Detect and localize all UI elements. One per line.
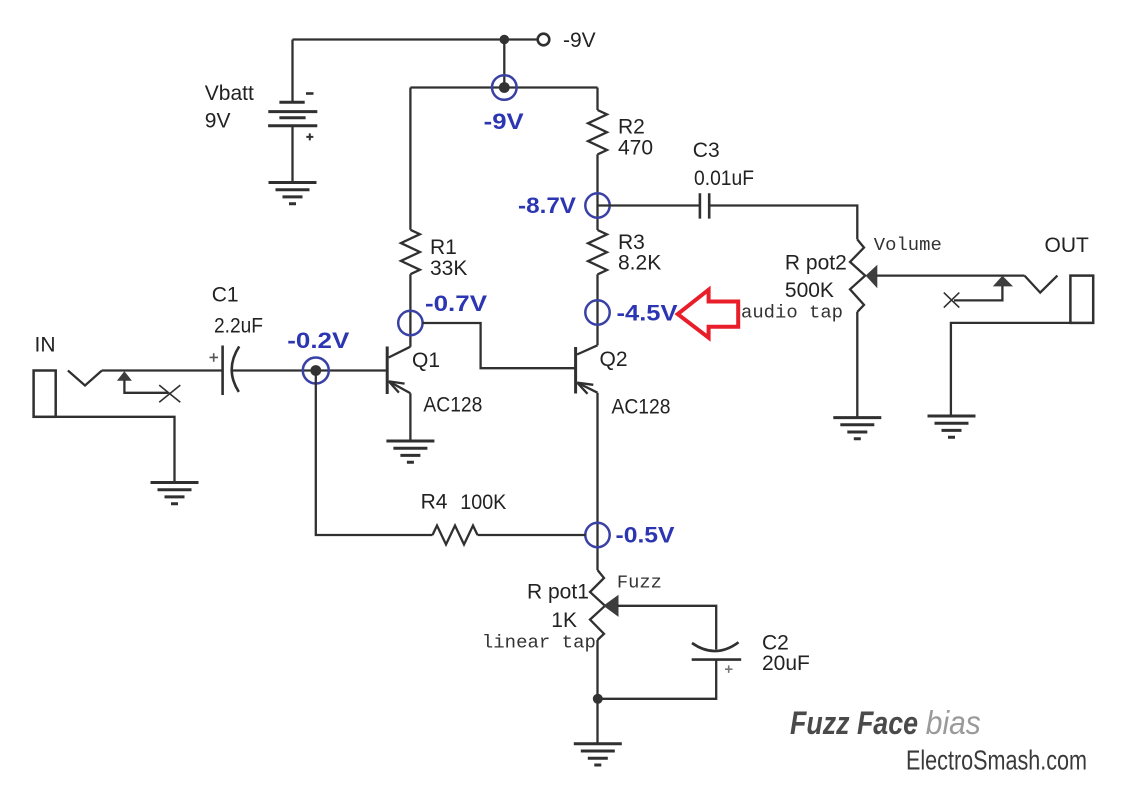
svg-text:Volume: Volume: [874, 236, 942, 256]
wire rail to R1 and R2: [410, 86, 597, 88]
IN jack switch arrow: [117, 371, 132, 381]
wire top supply rail: [293, 38, 538, 40]
wire -9V node drop: [503, 40, 505, 88]
svg-text:470: 470: [618, 137, 653, 160]
svg-text:R4: R4: [421, 491, 448, 514]
ground OUT: [928, 416, 976, 437]
svg-text:-8.7V: -8.7V: [518, 193, 576, 218]
ground pot1: [574, 744, 622, 765]
junction top rail: [500, 35, 510, 45]
pot1 wiper arrow: [603, 595, 618, 617]
jack IN sleeve rectangle: [34, 371, 56, 417]
resistor R1: [401, 230, 420, 274]
transistor Q1: [387, 347, 410, 395]
pot2 wiper arrow: [866, 265, 878, 289]
svg-text:linear tap: linear tap: [482, 634, 596, 654]
wire R2 top lead: [596, 88, 598, 111]
svg-text:0.01uF: 0.01uF: [694, 167, 754, 190]
node -4.5V: [585, 300, 609, 324]
svg-text:AC128: AC128: [423, 394, 482, 417]
wire battery top lead: [291, 40, 293, 103]
wire OUT jack sleeve to ground: [951, 323, 1071, 416]
potentiometer R pot1: [590, 570, 605, 640]
svg-text:Fuzz Face: Fuzz Face: [790, 705, 918, 741]
ground IN: [151, 483, 199, 504]
svg-text:100K: 100K: [460, 491, 506, 514]
terminal -9V open circle: [538, 34, 550, 46]
node -8.7V: [585, 193, 609, 217]
resistor R4: [433, 526, 478, 545]
svg-text:-0.7V: -0.7V: [425, 291, 487, 316]
svg-text:ElectroSmash.com: ElectroSmash.com: [906, 745, 1087, 776]
svg-text:Q2: Q2: [600, 348, 628, 371]
resistor R3: [588, 230, 607, 274]
node -0.7V: [398, 311, 422, 335]
battery Vbatt: [268, 102, 317, 125]
wire C1 to -0.2V node and Q1 base: [232, 369, 387, 371]
wire pot2 wiper to OUT jack: [877, 274, 1025, 276]
svg-text:8.2K: 8.2K: [618, 252, 661, 275]
svg-text:R1: R1: [430, 236, 457, 259]
node -9V: [492, 75, 517, 100]
IN switch cross: [159, 385, 180, 402]
wire R1 bottom to Q1 collector: [409, 274, 411, 347]
wire Q1 emitter to ground: [409, 393, 411, 441]
svg-text:-0.2V: -0.2V: [287, 328, 349, 353]
wire IN jack sleeve to ground: [56, 417, 175, 483]
wire C2 bottom to pot1 bottom: [598, 660, 717, 699]
OUT jack tip chevron: [1025, 276, 1058, 293]
svg-text:AC128: AC128: [612, 396, 671, 419]
potentiometer R pot2: [850, 239, 865, 312]
svg-text:R pot2: R pot2: [785, 252, 847, 275]
OUT jack sleeve rectangle: [1070, 276, 1093, 323]
wire R1 top lead: [409, 88, 411, 230]
wire pot1 wiper to C2 top: [618, 606, 717, 650]
svg-text:Vbatt: Vbatt: [205, 82, 254, 105]
capacitor C3: [700, 193, 709, 218]
svg-text:20uF: 20uF: [762, 652, 810, 675]
battery plus mark: [306, 133, 313, 140]
OUT jack switch arrow: [993, 276, 1013, 287]
svg-text:2.2uF: 2.2uF: [214, 315, 263, 338]
svg-text:Fuzz: Fuzz: [617, 574, 662, 594]
svg-text:IN: IN: [35, 334, 56, 357]
svg-text:-9V: -9V: [563, 29, 596, 52]
transistor Q2: [576, 345, 598, 394]
capacitor C2: [692, 642, 742, 673]
svg-text:-4.5V: -4.5V: [617, 301, 678, 326]
svg-text:C3: C3: [693, 139, 720, 162]
node -0.5V: [585, 523, 609, 547]
svg-text:bias: bias: [926, 704, 981, 741]
svg-text:OUT: OUT: [1045, 234, 1090, 257]
svg-text:9V: 9V: [205, 110, 231, 133]
svg-text:1K: 1K: [551, 609, 577, 632]
wire -0.2V node down to R4: [316, 371, 433, 536]
resistor R2: [588, 110, 607, 154]
ground pot2: [833, 418, 881, 439]
OUT switch cross: [944, 293, 960, 308]
svg-text:-9V: -9V: [484, 109, 524, 134]
svg-text:500K: 500K: [785, 279, 834, 302]
wire R3 bottom to Q2 collector: [596, 274, 598, 345]
wire C3 to pot2 top: [709, 206, 857, 240]
wire pot1 bottom to ground: [596, 640, 598, 744]
ground battery: [269, 183, 317, 204]
wire -0.7V node to Q2 base: [422, 323, 575, 368]
wire Q2 emitter down to pot1: [596, 393, 598, 570]
junction pot1 bottom: [593, 694, 603, 704]
battery minus mark: [306, 92, 314, 95]
wire IN tip to C1: [102, 369, 223, 371]
svg-text:R2: R2: [618, 116, 645, 139]
svg-text:R pot1: R pot1: [527, 581, 589, 604]
arrow bias pointer: [678, 290, 739, 338]
node -0.2V: [303, 358, 329, 384]
svg-text:-0.5V: -0.5V: [616, 523, 675, 548]
wire R2 bottom to R3 top: [596, 154, 598, 230]
wire IN switch stem: [124, 380, 168, 392]
svg-text:C1: C1: [212, 284, 239, 307]
IN jack tip chevron: [68, 371, 102, 386]
svg-text:audio tap: audio tap: [741, 304, 843, 324]
wire pot2 bottom to ground: [856, 312, 858, 418]
wire -8.7V node to C3: [598, 204, 700, 206]
wire OUT switch stem: [954, 286, 1002, 300]
capacitor C1: [210, 346, 240, 396]
wire battery bottom lead: [291, 126, 293, 183]
wire R4 to -0.5V node: [478, 534, 586, 536]
svg-text:33K: 33K: [430, 257, 467, 280]
svg-text:Q1: Q1: [412, 349, 440, 372]
ground Q1: [386, 441, 434, 462]
